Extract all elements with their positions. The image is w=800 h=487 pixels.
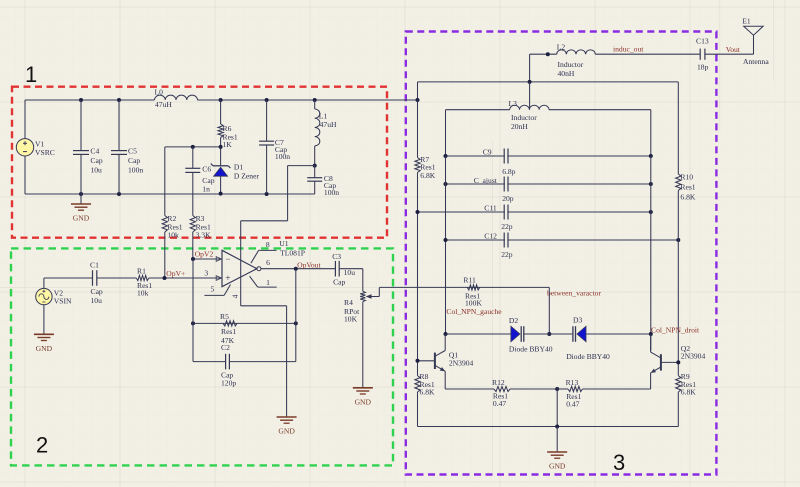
- svg-text:GND: GND: [549, 462, 566, 471]
- svg-text:3.3K: 3.3K: [196, 230, 211, 239]
- region box 2 (green dashed): [11, 248, 393, 465]
- wire node R2-C6-R6: [165, 146, 221, 148]
- svg-text:−: −: [226, 254, 231, 264]
- pin 4 supply wire: [240, 221, 242, 306]
- svg-text:10K: 10K: [344, 315, 358, 324]
- svg-text:22p: 22p: [501, 250, 513, 259]
- wire L1-C8 node to op-amp supply: [288, 165, 315, 167]
- svg-text:C2: C2: [221, 343, 230, 352]
- svg-text:C4: C4: [90, 146, 99, 155]
- capacitor C1: [93, 276, 96, 280]
- ground GND region3: [556, 389, 558, 427]
- svg-text:C3: C3: [332, 252, 341, 261]
- svg-text:R10: R10: [680, 173, 693, 182]
- transistor Q1 2N3904: [418, 360, 435, 362]
- inductor L3: [529, 82, 531, 110]
- svg-text:6.8K: 6.8K: [680, 193, 695, 202]
- wire right tank vertical: [650, 156, 652, 351]
- svg-text:between_varactor: between_varactor: [547, 288, 601, 297]
- capacitor C7: [265, 98, 269, 102]
- svg-text:OpV2: OpV2: [195, 249, 214, 258]
- op-amp U1 TL081P: [222, 250, 257, 286]
- ground GND R4: [353, 387, 373, 389]
- svg-text:C9: C9: [483, 147, 492, 156]
- svg-text:R4: R4: [344, 298, 353, 307]
- varactor diode D2: [446, 333, 512, 335]
- svg-text:Cap: Cap: [128, 156, 140, 165]
- svg-text:Antenna: Antenna: [743, 57, 769, 66]
- ground GND V2: [43, 305, 45, 335]
- resistor R13: [557, 388, 568, 390]
- svg-text:47uH: 47uH: [155, 100, 172, 109]
- svg-text:GND: GND: [355, 397, 372, 406]
- svg-text:Col_NPN_gauche: Col_NPN_gauche: [446, 307, 502, 316]
- right bias chain R10: [677, 82, 679, 174]
- capacitor C_ajust: [446, 183, 651, 185]
- svg-text:R1: R1: [137, 267, 146, 276]
- svg-text:Inductor: Inductor: [558, 60, 584, 69]
- svg-text:100n: 100n: [128, 165, 143, 174]
- capacitor C12: [446, 239, 679, 241]
- inductor L0: [155, 95, 198, 100]
- svg-text:GND: GND: [278, 427, 295, 436]
- resistor R1: [136, 275, 149, 280]
- svg-text:L0: L0: [155, 88, 164, 97]
- capacitor C2: [192, 323, 194, 361]
- svg-text:100n: 100n: [324, 188, 339, 197]
- svg-text:C1: C1: [90, 260, 99, 269]
- svg-text:R11: R11: [463, 275, 476, 284]
- svg-text:0.47: 0.47: [493, 399, 506, 408]
- svg-text:Diode BBY40: Diode BBY40: [566, 352, 610, 361]
- svg-text:100n: 100n: [275, 152, 290, 161]
- capacitor C9: [446, 155, 651, 157]
- svg-text:22p: 22p: [501, 222, 513, 231]
- svg-text:Res1: Res1: [221, 327, 236, 336]
- wiper arrow R4: [378, 287, 380, 296]
- node OpV+: [163, 276, 167, 280]
- capacitor C11: [418, 211, 651, 213]
- svg-text:induc_out: induc_out: [613, 44, 644, 53]
- wire top rail region1: [25, 99, 155, 101]
- svg-text:Res1: Res1: [680, 183, 695, 192]
- wire OpVout down to R5: [295, 269, 297, 324]
- resistor R11: [379, 286, 549, 288]
- svg-text:R13: R13: [566, 378, 579, 387]
- svg-text:1n: 1n: [202, 185, 210, 194]
- svg-text:GND: GND: [36, 344, 53, 353]
- svg-text:18p: 18p: [697, 62, 709, 71]
- svg-text:1K: 1K: [223, 140, 233, 149]
- resistor R6: [219, 98, 223, 102]
- svg-text:10u: 10u: [91, 296, 103, 305]
- svg-text:D Zener: D Zener: [234, 171, 260, 180]
- wire varactor center: [548, 287, 550, 334]
- svg-text:10k: 10k: [137, 288, 149, 297]
- svg-text:OpV+: OpV+: [166, 269, 185, 278]
- svg-text:D3: D3: [573, 315, 582, 324]
- svg-text:6.8K: 6.8K: [420, 388, 435, 397]
- svg-text:Cap: Cap: [90, 156, 102, 165]
- svg-text:6.8K: 6.8K: [681, 388, 696, 397]
- region box 3 (purple dashed): [406, 32, 717, 475]
- ground GND V1: [79, 192, 83, 196]
- svg-text:TL081P: TL081P: [280, 249, 305, 258]
- resistor R9: [676, 376, 681, 392]
- node rail join: [416, 98, 420, 102]
- svg-text:R12: R12: [492, 378, 505, 387]
- resistor R12: [494, 386, 510, 391]
- svg-text:1: 1: [25, 62, 37, 87]
- region box 1 (red dashed): [12, 87, 387, 238]
- svg-text:47uH: 47uH: [320, 120, 337, 129]
- svg-text:Cap: Cap: [91, 287, 103, 296]
- wire R3 node down: [192, 259, 194, 323]
- svg-text:Col_NPN_droit: Col_NPN_droit: [651, 325, 700, 334]
- wire bottom rail region1: [25, 193, 315, 195]
- svg-text:D2: D2: [509, 316, 518, 325]
- svg-text:C13: C13: [696, 36, 709, 45]
- svg-text:20nH: 20nH: [511, 122, 528, 131]
- capacitor C13: [701, 52, 704, 56]
- left bias chain R7: [417, 100, 419, 158]
- capacitor C8: [313, 164, 317, 168]
- output wire OpVout: [261, 268, 336, 270]
- svg-text:6.8p: 6.8p: [502, 167, 515, 176]
- svg-text:VSIN: VSIN: [54, 297, 72, 306]
- svg-text:10k: 10k: [167, 230, 179, 239]
- resistor R2: [164, 147, 166, 216]
- capacitor C5: [117, 98, 121, 102]
- ground GND op-amp: [277, 416, 297, 418]
- svg-text:10u: 10u: [90, 165, 102, 174]
- svg-text:Diode BBY40: Diode BBY40: [509, 345, 553, 354]
- svg-text:Inductor: Inductor: [511, 113, 537, 122]
- wire V2 to C1: [43, 278, 45, 288]
- zener diode D1: [219, 145, 223, 149]
- svg-text:20p: 20p: [502, 194, 514, 203]
- svg-text:+: +: [225, 274, 230, 284]
- svg-text:1: 1: [266, 278, 270, 287]
- svg-text:8: 8: [266, 240, 270, 249]
- svg-text:10u: 10u: [344, 268, 356, 277]
- feedback resistor R5: [193, 322, 296, 324]
- svg-text:OpVout: OpVout: [297, 260, 321, 269]
- svg-text:40nH: 40nH: [558, 69, 575, 78]
- svg-text:GND: GND: [73, 214, 90, 223]
- svg-text:6.8K: 6.8K: [420, 171, 435, 180]
- wire inner top rail region3: [418, 81, 679, 83]
- svg-text:5: 5: [211, 285, 215, 294]
- pin 1 stub: [250, 276, 258, 287]
- svg-text:R5: R5: [220, 312, 229, 321]
- emitter row wire: [445, 388, 494, 390]
- svg-text:C6: C6: [202, 164, 211, 173]
- svg-text:0.47: 0.47: [566, 399, 579, 408]
- pin 5 stub: [204, 294, 224, 296]
- svg-text:2N3904: 2N3904: [681, 351, 706, 360]
- svg-text:L3: L3: [509, 99, 518, 108]
- transistor Q2 2N3904: [661, 361, 678, 363]
- svg-text:D1: D1: [234, 162, 243, 171]
- svg-text:3: 3: [613, 450, 625, 475]
- svg-text:C5: C5: [128, 146, 137, 155]
- svg-text:3: 3: [204, 268, 208, 277]
- svg-text:6: 6: [266, 258, 270, 267]
- svg-text:C_ajust: C_ajust: [474, 176, 498, 185]
- svg-text:Cap: Cap: [333, 278, 345, 287]
- capacitor C6: [191, 145, 195, 149]
- svg-text:4: 4: [231, 294, 240, 298]
- svg-text:2: 2: [36, 433, 48, 458]
- varactor diode D3: [549, 333, 572, 335]
- node emitter center: [555, 387, 559, 391]
- svg-text:VSRC: VSRC: [35, 148, 55, 157]
- svg-text:L2: L2: [557, 43, 566, 52]
- wire inverting input: [193, 258, 222, 260]
- svg-text:E1: E1: [742, 17, 751, 26]
- source V2: [36, 288, 52, 304]
- svg-text:Vout: Vout: [726, 45, 741, 54]
- svg-text:120p: 120p: [221, 379, 236, 388]
- potentiometer R4 RPot: [362, 269, 364, 292]
- capacitor C3: [336, 267, 338, 271]
- svg-text:U1: U1: [279, 239, 288, 248]
- inductor L2: [530, 53, 557, 55]
- wire left tank vertical: [445, 156, 447, 334]
- antenna E1: [753, 35, 755, 54]
- capacitor C4: [79, 98, 83, 102]
- source V1: [24, 100, 26, 139]
- resistor R3: [190, 216, 195, 233]
- svg-text:2N3904: 2N3904: [449, 358, 474, 367]
- pin 8 stub: [251, 250, 259, 263]
- wire bottom rail region3: [418, 426, 679, 428]
- svg-text:C11: C11: [484, 204, 497, 213]
- inductor L1: [313, 98, 317, 102]
- svg-text:C12: C12: [484, 232, 497, 241]
- resistor R8: [415, 376, 420, 392]
